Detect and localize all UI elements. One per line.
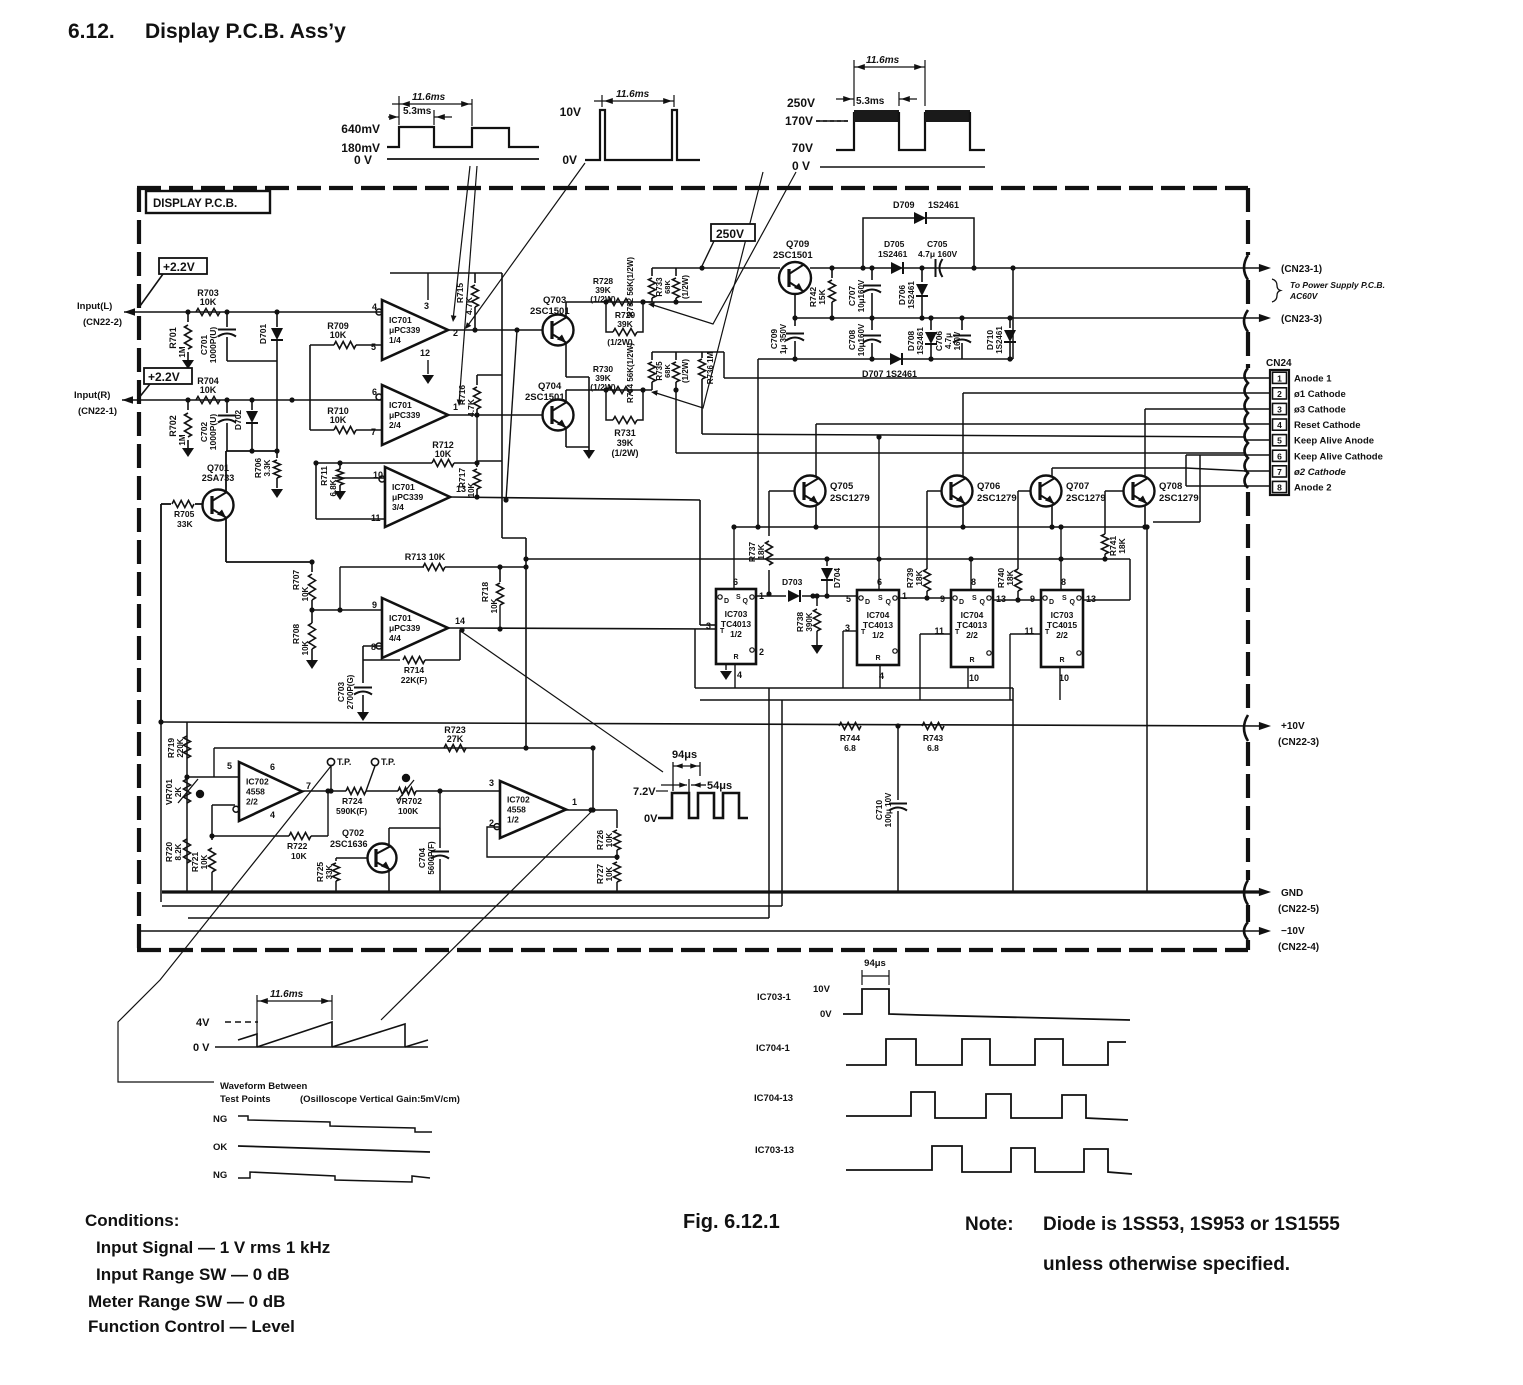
upper comparator rail: [566, 301, 652, 303]
vertical Q708 emitter down: [1146, 528, 1148, 892]
border bump at GND exit: [1244, 880, 1248, 905]
Q708 base wire: [1105, 490, 1123, 492]
Q706 base wire: [927, 490, 941, 492]
waveform W1 trace: [387, 127, 539, 147]
svg-text:7: 7: [371, 427, 376, 437]
svg-text:1S2461: 1S2461: [995, 326, 1004, 354]
node +2.2V label upper: [159, 258, 207, 274]
riser x1013: [1012, 688, 1014, 892]
svg-text:IC704-1: IC704-1: [756, 1043, 791, 1054]
svg-text:TC4015: TC4015: [1047, 620, 1078, 630]
svg-text:5.3ms: 5.3ms: [403, 106, 432, 117]
svg-text:D706: D706: [897, 285, 907, 306]
svg-text:Q703: Q703: [543, 295, 566, 306]
leader line from W3 to upper resistor node: [650, 172, 796, 324]
leader line from W2 to comparator area: [466, 163, 585, 328]
main 250V rail: [702, 267, 780, 269]
svg-text:R: R: [733, 654, 738, 661]
svg-text:1/2: 1/2: [730, 629, 742, 639]
svg-text:(1/2W): (1/2W): [590, 382, 616, 392]
resistor R739: [924, 569, 931, 591]
resistor R724: [346, 788, 366, 795]
svg-text:5: 5: [846, 594, 851, 604]
diode D710: [1009, 318, 1011, 328]
svg-text:4558: 4558: [507, 805, 526, 815]
svg-text:DISPLAY P.C.B.: DISPLAY P.C.B.: [153, 198, 237, 210]
pot VR702: [366, 790, 398, 792]
svg-text:D702: D702: [233, 410, 243, 431]
svg-text:IC703: IC703: [1051, 610, 1074, 620]
svg-text:33K: 33K: [325, 864, 334, 879]
op-amp IC701 1/4: [382, 300, 448, 360]
resistor R704: [196, 397, 220, 404]
svg-text:unless otherwise specified.: unless otherwise specified.: [1043, 1254, 1290, 1275]
svg-text:μPC339: μPC339: [392, 492, 423, 502]
svg-text:R732 56K(1/2W): R732 56K(1/2W): [626, 257, 635, 317]
riser x780: [781, 700, 783, 906]
svg-text:D710: D710: [985, 330, 995, 351]
svg-text:Display P.C.B. Ass’y: Display P.C.B. Ass’y: [145, 20, 346, 43]
svg-text:10: 10: [969, 673, 979, 683]
resistor R736: [701, 352, 703, 358]
svg-text:3/4: 3/4: [392, 502, 404, 512]
resistor R702: [187, 400, 189, 410]
svg-text:6.8: 6.8: [927, 743, 939, 753]
svg-text:2/2: 2/2: [1056, 630, 1068, 640]
svg-text:10K: 10K: [330, 330, 347, 340]
sawtooth trace: [215, 1046, 428, 1048]
svg-text:D707 1S2461: D707 1S2461: [862, 369, 917, 379]
leader from IC702 1/2 output to sawtooth: [381, 812, 591, 1020]
svg-text:2SA733: 2SA733: [202, 473, 235, 483]
bus wire y688: [695, 687, 1013, 689]
svg-text:C707: C707: [847, 286, 857, 307]
svg-text:1: 1: [572, 797, 577, 807]
svg-text:R: R: [875, 655, 880, 662]
resistor R740: [1015, 569, 1022, 591]
waveform W1 zero line: [387, 158, 539, 160]
vertical x1200: [1199, 455, 1201, 522]
pin11 wire: [315, 463, 317, 519]
svg-text:(CN22-3): (CN22-3): [1278, 737, 1319, 748]
svg-text:(CN23-3): (CN23-3): [1281, 314, 1322, 325]
svg-text:+2.2V: +2.2V: [148, 370, 180, 384]
resistor R701: [187, 312, 189, 322]
lower comparator rail: [566, 389, 652, 391]
inner left rail: [160, 722, 162, 902]
+2.2V vertical rail: [501, 273, 503, 538]
timing 94us bracket: [861, 970, 863, 985]
svg-text:7: 7: [306, 781, 311, 791]
svg-text:R720: R720: [164, 842, 174, 863]
capacitor C701: [226, 312, 228, 327]
transistor Q706 2SC1279: [942, 476, 973, 507]
svg-text:4558: 4558: [246, 786, 265, 796]
svg-text:640mV: 640mV: [341, 122, 380, 136]
wire pin5 anode: [702, 434, 1246, 437]
svg-text:170V: 170V: [785, 114, 813, 128]
waveform W3 zero line: [820, 166, 985, 168]
resistor R731 loop: [603, 387, 608, 392]
svg-text:OK: OK: [213, 1142, 227, 1153]
svg-text:8: 8: [1061, 577, 1066, 587]
svg-text:D: D: [1049, 599, 1054, 606]
svg-text:1: 1: [902, 591, 907, 601]
Q704 emitter to ground: [565, 429, 567, 447]
svg-text:10K: 10K: [200, 854, 209, 869]
resistor R720: [184, 839, 191, 863]
vertical from output2: [514, 327, 519, 332]
op-amp IC702 2/2: [239, 762, 302, 821]
svg-text:5.3ms: 5.3ms: [856, 96, 885, 107]
sawtooth dashes: [225, 1021, 258, 1023]
op-amp IC701 4/4: [382, 598, 448, 658]
resistor R733 vertical: [675, 268, 677, 276]
svg-text:10K: 10K: [200, 385, 217, 395]
svg-text:Q: Q: [886, 599, 892, 606]
+10V rail: [162, 722, 1262, 726]
diode D705: [891, 262, 903, 274]
pin5 wire: [187, 776, 239, 778]
wire to FF2: [802, 595, 857, 597]
wire pin8: [1186, 485, 1246, 487]
FF1 output wire: [756, 595, 786, 597]
svg-text:94μs: 94μs: [672, 749, 697, 761]
transistor Q707 2SC1279: [1031, 476, 1062, 507]
svg-text:C708: C708: [847, 330, 857, 351]
svg-text:12: 12: [420, 348, 430, 358]
resistor R712: [432, 460, 454, 467]
svg-text:2/2: 2/2: [246, 796, 258, 806]
svg-text:2SC1279: 2SC1279: [1159, 493, 1199, 504]
svg-text:R714: R714: [404, 665, 425, 675]
svg-text:14: 14: [455, 616, 465, 626]
waveform W3 5.3ms bracket: [898, 92, 900, 106]
resistor R729 loop: [603, 299, 608, 304]
Q709 emitter down: [794, 293, 796, 318]
svg-text:Q: Q: [1070, 599, 1076, 606]
svg-text:4.7K: 4.7K: [464, 296, 474, 315]
svg-text:10K: 10K: [200, 297, 217, 307]
border bump at CN23-3: [1244, 310, 1248, 332]
svg-text:(CN22-4): (CN22-4): [1278, 942, 1319, 953]
svg-text:0 V: 0 V: [792, 159, 810, 173]
FF4 clock wire: [1010, 633, 1041, 635]
svg-text:0 V: 0 V: [354, 153, 372, 167]
svg-text:9: 9: [940, 594, 945, 604]
svg-text:10K: 10K: [467, 482, 476, 497]
waveform W1 11.6ms bracket: [398, 96, 400, 125]
FF2 output wire: [899, 597, 951, 599]
svg-text:3: 3: [489, 778, 494, 788]
waveform W3 trace: [836, 112, 854, 150]
IC IC703 TC4013 1/2: [716, 589, 756, 664]
svg-text:ø3 Cathode: ø3 Cathode: [1294, 405, 1346, 416]
svg-text:D708: D708: [906, 331, 916, 352]
wires to CN24 pins: [1244, 377, 1270, 379]
svg-text:250V: 250V: [716, 227, 744, 241]
resistor R717: [476, 461, 478, 467]
svg-text:2SC1279: 2SC1279: [977, 493, 1017, 504]
svg-text:AC60V: AC60V: [1289, 291, 1319, 301]
svg-text:R: R: [1059, 657, 1064, 664]
resistor R705: [161, 503, 171, 505]
rail y902: [162, 905, 782, 907]
FF top pins: [878, 437, 880, 590]
svg-text:R722: R722: [287, 841, 308, 851]
svg-text:6: 6: [1277, 451, 1282, 461]
capacitor C708: [871, 318, 873, 330]
Q702 emitter: [388, 871, 390, 892]
dashed border bottom: [137, 948, 1248, 952]
wire op3 output to FF clock: [450, 497, 700, 500]
svg-text:Q707: Q707: [1066, 481, 1089, 492]
svg-text:Function Control — Level: Function Control — Level: [88, 1317, 295, 1336]
transistor Q708 2SC1279: [1124, 476, 1155, 507]
svg-text:T.P.: T.P.: [337, 757, 351, 767]
svg-text:Reset Cathode: Reset Cathode: [1294, 420, 1361, 431]
svg-text:C703: C703: [336, 682, 346, 703]
exit arrow CN23-1: [1259, 264, 1271, 272]
resistor R723 feedback wire: [214, 747, 593, 749]
border bump at CN23-1: [1244, 255, 1248, 280]
svg-text:1S2461: 1S2461: [878, 249, 908, 259]
svg-text:−10V: −10V: [1281, 926, 1305, 937]
svg-text:Keep Alive Cathode: Keep Alive Cathode: [1294, 451, 1383, 462]
op-amp IC701 3/4: [385, 467, 450, 527]
svg-text:6: 6: [372, 387, 377, 397]
resistor R708: [309, 623, 316, 649]
diode D709 loop: [863, 218, 974, 268]
svg-text:1/2: 1/2: [872, 630, 884, 640]
svg-text:10V: 10V: [560, 105, 581, 119]
leader line from W1 to comparator output 1: [459, 166, 477, 404]
resistor R728: [608, 299, 632, 306]
svg-text:C709: C709: [769, 329, 779, 350]
svg-text:9: 9: [1030, 594, 1035, 604]
svg-text:8: 8: [1277, 483, 1282, 493]
svg-text:IC704: IC704: [961, 610, 984, 620]
pin inverting wire: [212, 804, 235, 806]
waveform W2 11.6ms bracket: [601, 95, 603, 107]
svg-text:2: 2: [759, 647, 764, 657]
svg-text:C704: C704: [417, 848, 427, 869]
capacitor C703: [354, 687, 372, 689]
pin12 ground: [427, 360, 429, 374]
svg-text:18K: 18K: [914, 569, 924, 585]
FF bottom pin wires: [734, 664, 736, 688]
svg-text:6: 6: [270, 762, 275, 772]
svg-text:1: 1: [1277, 373, 1282, 383]
svg-text:Fig. 6.12.1: Fig. 6.12.1: [683, 1211, 780, 1233]
resistor R725: [336, 857, 367, 859]
svg-text:R713 10K: R713 10K: [405, 552, 446, 562]
wire x676 down to pin6: [675, 390, 677, 453]
svg-text:NG: NG: [213, 1170, 227, 1181]
svg-text:8: 8: [371, 642, 376, 652]
resistor R743: [922, 723, 944, 730]
exit arrow CN23-3: [1259, 314, 1271, 322]
svg-text:1/4: 1/4: [389, 335, 401, 345]
svg-text:IC703-13: IC703-13: [755, 1145, 794, 1156]
resistor R710: [334, 427, 356, 434]
leader from TP to waveform bracket: [118, 766, 331, 1082]
svg-text:R734 56K(1/2W): R734 56K(1/2W): [626, 343, 635, 403]
Q702 collector: [388, 828, 390, 845]
svg-text:11: 11: [371, 513, 381, 523]
svg-text:T: T: [955, 629, 960, 636]
wire y559: [526, 558, 1130, 560]
svg-text:Note:: Note:: [965, 1214, 1014, 1235]
svg-text:R706: R706: [253, 458, 263, 479]
left component column: [186, 722, 188, 892]
svg-text:7: 7: [1277, 467, 1282, 477]
svg-text:2K: 2K: [174, 787, 183, 797]
feedback R713: [340, 566, 424, 568]
svg-text:Q706: Q706: [977, 481, 1000, 492]
svg-text:2/4: 2/4: [389, 420, 401, 430]
svg-text:11.6ms: 11.6ms: [270, 989, 304, 1000]
svg-text:+2.2V: +2.2V: [163, 260, 195, 274]
brace to power supply: [1272, 279, 1281, 302]
rail +2.2V top: [390, 272, 502, 274]
svg-text:Input(L): Input(L): [77, 301, 112, 312]
svg-text:2SC1279: 2SC1279: [830, 493, 870, 504]
Q703 emitter to ground: [565, 344, 567, 377]
svg-text:10K: 10K: [330, 415, 347, 425]
svg-text:250V: 250V: [787, 96, 815, 110]
svg-text:T: T: [861, 629, 866, 636]
exit arrow -10V: [1259, 927, 1271, 935]
transistor Q705 2SC1279: [795, 476, 826, 507]
svg-text:R705: R705: [174, 509, 195, 519]
svg-text:10K: 10K: [605, 866, 614, 881]
svg-text:2/2: 2/2: [966, 630, 978, 640]
waveform 7.2V 54us bracket: [661, 784, 687, 786]
svg-text:0V: 0V: [644, 813, 658, 825]
svg-text:μPC339: μPC339: [389, 623, 420, 633]
resistor R707: [311, 562, 313, 572]
svg-text:IC702: IC702: [507, 795, 530, 805]
FF1 ground: [725, 664, 727, 670]
svg-text:1μ 350V: 1μ 350V: [779, 323, 788, 354]
svg-text:2700P(G): 2700P(G): [346, 674, 355, 709]
FF2 clock wire: [843, 630, 857, 632]
svg-text:+10V: +10V: [1281, 721, 1305, 732]
diode D707: [890, 353, 902, 365]
svg-text:Keep Alive Anode: Keep Alive Anode: [1294, 436, 1374, 447]
svg-text:4.7K: 4.7K: [466, 398, 476, 417]
svg-text:Q708: Q708: [1159, 481, 1182, 492]
svg-text:10K: 10K: [291, 851, 307, 861]
FF3 clock wire: [920, 633, 951, 635]
svg-text:11.6ms: 11.6ms: [412, 92, 446, 103]
border bump at +10V exit: [1244, 715, 1248, 741]
svg-text:1S2461: 1S2461: [916, 327, 925, 355]
svg-text:2SC1279: 2SC1279: [1066, 493, 1106, 504]
svg-text:10μ160V: 10μ160V: [857, 279, 866, 312]
Q707 base wire: [1018, 490, 1030, 492]
diode D706: [921, 268, 923, 282]
svg-text:(Osilloscope Vertical Gain:5mV: (Osilloscope Vertical Gain:5mV/cm): [300, 1094, 460, 1105]
svg-text:D: D: [724, 598, 729, 605]
svg-text:Input Signal — 1 V rms 1 kHz: Input Signal — 1 V rms 1 kHz: [96, 1238, 330, 1257]
waveform 7.2V 94us bracket: [672, 762, 674, 791]
svg-text:Q: Q: [980, 599, 986, 606]
svg-text:R717: R717: [457, 468, 467, 489]
wire op1 output: [448, 329, 542, 331]
resistor R714: [363, 659, 400, 661]
svg-text:D701: D701: [258, 324, 268, 345]
svg-text:4V: 4V: [196, 1017, 210, 1029]
capacitor C706: [961, 318, 963, 330]
svg-text:4/4: 4/4: [389, 633, 401, 643]
resistor R718: [499, 567, 501, 582]
Q706 collector to pin2: [962, 393, 964, 477]
-10V rail: [139, 930, 1262, 932]
resistor R735 vertical: [675, 352, 677, 360]
waveform W2 trace: [585, 110, 700, 160]
capacitor C704: [439, 828, 441, 848]
wire pin6 jog: [1186, 454, 1246, 456]
svg-text:2SC1501: 2SC1501: [525, 392, 565, 403]
svg-text:Test Points: Test Points: [220, 1094, 271, 1105]
svg-text:R731: R731: [614, 428, 636, 438]
svg-text:4.7μ 160V: 4.7μ 160V: [918, 249, 958, 259]
svg-text:(1/2W): (1/2W): [681, 359, 690, 383]
svg-text:1/2: 1/2: [507, 815, 519, 825]
svg-text:IC702: IC702: [246, 776, 269, 786]
svg-text:(CN22-1): (CN22-1): [78, 406, 117, 417]
svg-text:T.P.: T.P.: [381, 757, 395, 767]
svg-text:4: 4: [372, 302, 377, 312]
resistor R734 vertical: [651, 352, 653, 360]
svg-text:D709: D709: [893, 200, 915, 210]
test point TP1: [330, 766, 332, 791]
IC IC704 TC4013 1/2: [857, 590, 899, 665]
resistor R711: [339, 463, 341, 469]
svg-text:D703: D703: [782, 577, 803, 587]
svg-text:70V: 70V: [792, 141, 813, 155]
svg-text:10V: 10V: [813, 984, 831, 995]
dashed border top: [137, 186, 1248, 190]
diode D701: [276, 312, 278, 327]
svg-text:VR702: VR702: [396, 796, 422, 806]
svg-text:IC704-13: IC704-13: [754, 1093, 793, 1104]
waveform W1 5.3ms bracket: [433, 110, 435, 125]
svg-text:160V: 160V: [953, 331, 962, 350]
wire input L: [124, 311, 382, 313]
op-amp IC701 2/4: [382, 385, 448, 445]
svg-text:1S2461: 1S2461: [907, 281, 916, 309]
svg-text:Anode 2: Anode 2: [1294, 483, 1331, 494]
svg-text:100K: 100K: [398, 806, 419, 816]
svg-text:(1/2W): (1/2W): [590, 294, 616, 304]
svg-text:4: 4: [737, 670, 742, 680]
op-amp IC702 1/2: [500, 781, 566, 838]
Q705 base to FF1: [769, 490, 794, 492]
svg-text:2: 2: [1277, 389, 1282, 399]
FF1 pin6 wire: [733, 527, 735, 589]
svg-text:0V: 0V: [562, 153, 577, 167]
svg-text:33K: 33K: [177, 519, 193, 529]
dashed border right upper: [1246, 188, 1250, 255]
svg-text:Meter Range SW — 0 dB: Meter Range SW — 0 dB: [88, 1292, 285, 1311]
resistor R715: [474, 273, 476, 283]
svg-text:4.7μ: 4.7μ: [944, 333, 953, 349]
svg-text:10K: 10K: [605, 832, 614, 847]
svg-text:TC4013: TC4013: [863, 620, 894, 630]
